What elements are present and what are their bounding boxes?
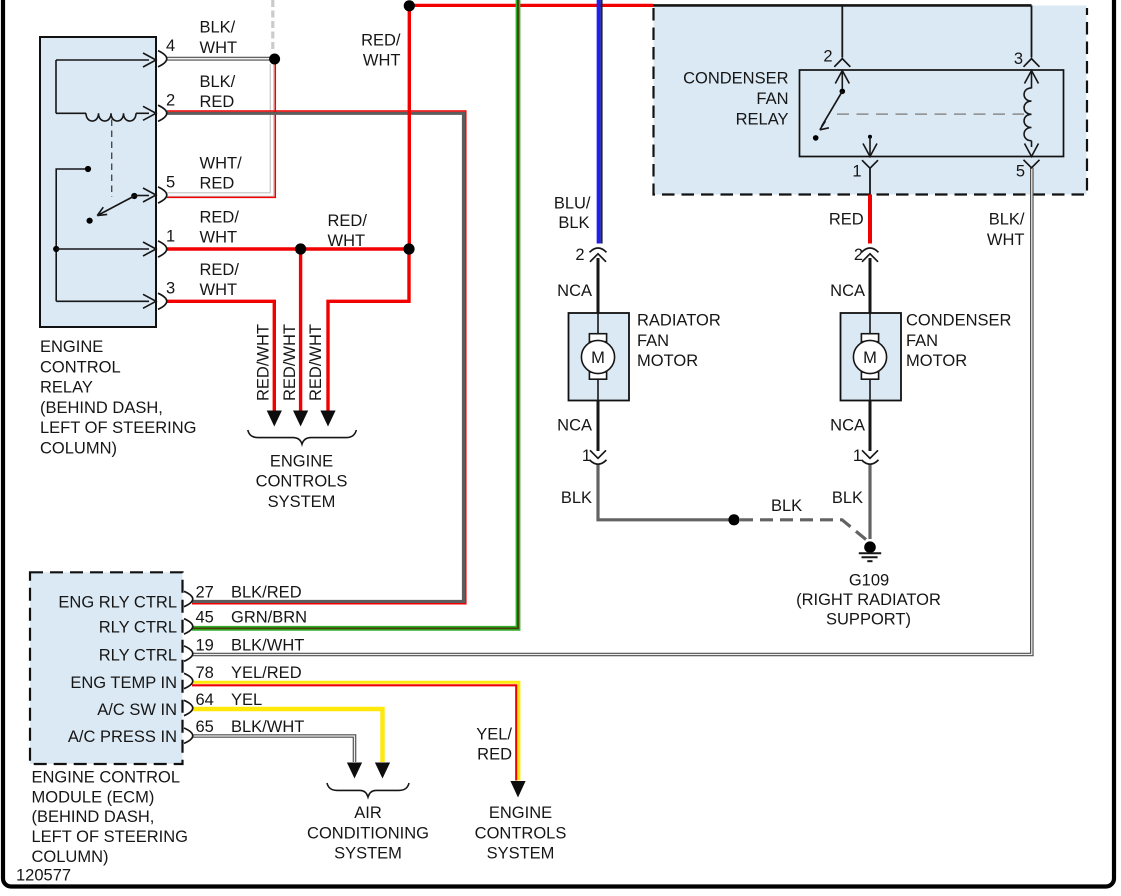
relay K1 internal: dashed actuator link <box>111 120 113 198</box>
svg-text:AIR: AIR <box>354 804 382 822</box>
wire BLK drop to condenser relay pin 2 <box>841 5 843 57</box>
svg-text:NCA: NCA <box>830 282 865 300</box>
svg-text:27: 27 <box>196 584 214 602</box>
svg-text:19: 19 <box>196 637 214 655</box>
svg-text:(RIGHT RADIATOR: (RIGHT RADIATOR <box>796 591 941 609</box>
svg-text:ENG RLY CTRL: ENG RLY CTRL <box>58 594 177 612</box>
arrow YEL to air conditioning system <box>375 763 390 779</box>
svg-text:1: 1 <box>852 163 861 181</box>
relay K1 internal: pin 4 line with arrow <box>56 59 149 61</box>
relay K1 internal: pin 5 contact and movable arm <box>131 193 137 199</box>
svg-text:3: 3 <box>1014 50 1023 68</box>
svg-text:NCA: NCA <box>830 417 865 435</box>
svg-text:1: 1 <box>582 447 591 465</box>
connector relay K1 pin 4 <box>158 51 167 67</box>
wire RED condenser relay pin 1 lead inside enclosure <box>869 168 871 195</box>
svg-text:FAN: FAN <box>756 90 788 108</box>
svg-text:MODULE (ECM): MODULE (ECM) <box>32 788 155 806</box>
node junction dot RED/WHT pin1 first x300.6 <box>295 243 306 254</box>
wire RED/WHT relay pin 1 horizontal through junction dots <box>167 247 409 250</box>
svg-text:CONDENSER: CONDENSER <box>683 70 789 88</box>
svg-text:RED: RED <box>200 93 235 111</box>
svg-text:BLK/WHT: BLK/WHT <box>231 718 304 736</box>
svg-text:CONTROLS: CONTROLS <box>256 473 348 491</box>
connector C2 radiator fan (top) <box>590 248 607 252</box>
connector C1 condenser fan (bottom) <box>862 450 878 458</box>
wire BLK/WHT condenser relay pin 5 down and across to ECM pin 19 <box>192 168 1032 655</box>
relay K1 internal: pin 1 line with arrow <box>56 248 149 250</box>
connector ECM pin 45 <box>184 619 193 634</box>
svg-text:RED/WHT: RED/WHT <box>307 324 325 401</box>
svg-text:RED: RED <box>829 211 864 229</box>
svg-text:A/C SW IN: A/C SW IN <box>97 701 177 719</box>
svg-text:RED/WHT: RED/WHT <box>255 324 273 401</box>
svg-text:5: 5 <box>166 173 175 191</box>
relay K2 CONDENSER FAN RELAY dashed enclosure <box>654 6 1087 195</box>
wire RED/WHT relay pin 3 to engine controls system arrow 1 <box>167 301 274 411</box>
svg-text:SUPPORT): SUPPORT) <box>826 611 911 629</box>
svg-text:RLY CTRL: RLY CTRL <box>99 647 177 665</box>
relay K1 ENGINE CONTROL RELAY box <box>40 37 156 327</box>
svg-text:M: M <box>863 349 877 367</box>
wire BLK/WHT ECM pin 65 to air conditioning system arrow <box>192 736 355 762</box>
svg-text:WHT: WHT <box>363 52 401 70</box>
wire BLK drop to condenser relay pin 3 <box>1031 5 1033 57</box>
svg-text:3: 3 <box>166 280 175 298</box>
relay K1 internal: top rail <box>55 60 57 113</box>
connector relay K1 pin 2 <box>158 105 167 121</box>
connector relay K2 pin 1 <box>862 160 878 168</box>
svg-text:RELAY: RELAY <box>736 110 789 128</box>
connector relay K1 pin 3 <box>158 293 167 309</box>
wire BLK radiator fan motor to splice dot <box>598 464 734 520</box>
svg-text:G109: G109 <box>849 572 889 590</box>
relay K2 internal: coil <box>1024 88 1031 141</box>
svg-text:WHT: WHT <box>987 231 1025 249</box>
svg-text:ENGINE: ENGINE <box>489 804 552 822</box>
svg-text:BLU/: BLU/ <box>554 194 591 212</box>
svg-text:BLK/: BLK/ <box>989 210 1025 228</box>
svg-text:LEFT OF STEERING: LEFT OF STEERING <box>32 828 188 846</box>
svg-text:RADIATOR: RADIATOR <box>637 312 721 330</box>
svg-text:MOTOR: MOTOR <box>637 352 698 370</box>
svg-text:NCA: NCA <box>557 282 592 300</box>
connector relay K1 pin 5 <box>158 187 167 203</box>
svg-text:64: 64 <box>196 691 214 709</box>
svg-text:LEFT OF STEERING: LEFT OF STEERING <box>40 419 196 437</box>
svg-text:ENG TEMP IN: ENG TEMP IN <box>70 674 177 692</box>
connector ECM pin 19 <box>184 646 193 661</box>
relay K2 CONDENSER FAN RELAY body <box>800 70 1064 157</box>
connector relay K1 pin 1 <box>158 241 167 257</box>
svg-text:RED/: RED/ <box>200 209 240 227</box>
node junction dot BLK/WHT pin4 end x273.6 <box>269 54 280 65</box>
svg-text:COLUMN): COLUMN) <box>32 848 109 866</box>
svg-text:WHT/: WHT/ <box>200 155 243 173</box>
connector C2 condenser fan (top) <box>862 248 879 252</box>
relay K2 internal: coil to pin 5 arrow <box>1031 141 1033 147</box>
svg-text:YEL/RED: YEL/RED <box>231 664 302 682</box>
node junction dot RED/WHT pin1 second x409 <box>403 243 414 254</box>
wire BLK/WHT relay pin 4 to junction <box>167 57 275 61</box>
wire GRN/BRN from top edge down to ECM pin 45 <box>192 0 518 628</box>
svg-text:BLK: BLK <box>832 489 863 507</box>
connector relay K2 pin 3 chevron <box>1024 59 1040 67</box>
svg-text:WHT: WHT <box>328 232 366 250</box>
wire WHT dashed off-page stub above junction at x=273.6 <box>271 0 274 51</box>
brace under engine controls system arrows <box>248 430 356 444</box>
relay K2 internal: switch arm and contacts <box>840 89 846 95</box>
svg-text:WHT: WHT <box>200 39 238 57</box>
relay K2 internal: pin 1 stub with arrow <box>868 135 872 139</box>
arrow RED/WHT to engine controls system 1 <box>267 411 282 427</box>
wire NCA radiator fan motor lower lead <box>597 401 600 452</box>
motor M1 RADIATOR FAN MOTOR box <box>569 313 630 401</box>
svg-text:BLK/WHT: BLK/WHT <box>231 637 304 655</box>
svg-text:BLK/RED: BLK/RED <box>231 584 302 602</box>
wire RED/WHT branch from first junction dot down to arrow 2 <box>299 249 302 412</box>
arrow RED/WHT to engine controls system 3 <box>320 411 335 427</box>
svg-text:RED/: RED/ <box>200 261 240 279</box>
svg-text:RLY CTRL: RLY CTRL <box>99 619 177 637</box>
svg-text:SYSTEM: SYSTEM <box>334 845 402 863</box>
svg-text:BLK/: BLK/ <box>200 73 236 91</box>
wire RED/WHT branch from second junction dot down and over to arrow 3 <box>328 249 409 412</box>
svg-text:COLUMN): COLUMN) <box>40 440 117 458</box>
connector ECM pin 27 <box>184 591 193 606</box>
svg-text:YEL: YEL <box>231 691 262 709</box>
svg-text:CONTROLS: CONTROLS <box>475 824 567 842</box>
svg-text:A/C PRESS IN: A/C PRESS IN <box>68 728 177 746</box>
svg-text:FAN: FAN <box>906 332 938 350</box>
wire BLK dashed splice to ground <box>740 520 866 540</box>
svg-text:BLK/: BLK/ <box>200 19 236 37</box>
relay K2 internal: pin 2 arrow into body <box>835 71 849 84</box>
svg-text:2: 2 <box>575 246 584 264</box>
svg-text:YEL/: YEL/ <box>476 726 512 744</box>
svg-text:5: 5 <box>1016 163 1025 181</box>
wire YEL/RED ECM pin 78 to engine controls system arrow <box>192 682 519 780</box>
wire BLK top feed inside condenser enclosure to pins 2 and 3 <box>653 4 1032 7</box>
svg-text:45: 45 <box>196 609 214 627</box>
svg-text:ENGINE: ENGINE <box>40 338 103 356</box>
svg-text:RED/: RED/ <box>328 212 368 230</box>
relay K2 internal: pin 2 connector chevron <box>834 59 850 67</box>
connector C1 radiator fan (bottom) <box>590 450 606 458</box>
svg-text:MOTOR: MOTOR <box>906 352 967 370</box>
arrow YEL/RED to engine controls system <box>510 781 525 798</box>
svg-text:120577: 120577 <box>16 867 71 885</box>
svg-text:RED: RED <box>200 175 235 193</box>
wire BLU/BLK from top edge down to radiator fan connector 2 <box>597 0 601 244</box>
motor M2 CONDENSER FAN MOTOR box <box>841 313 902 401</box>
svg-text:M: M <box>591 349 605 367</box>
svg-text:ENGINE: ENGINE <box>270 452 333 470</box>
motor M2 internal symbol <box>869 313 871 334</box>
arrow BLK/WHT to air conditioning system <box>347 763 362 779</box>
connector ECM pin 78 <box>184 673 193 688</box>
arrow RED/WHT to engine controls system 2 <box>293 411 308 427</box>
svg-text:78: 78 <box>196 664 214 682</box>
wire NCA condenser fan motor lower lead <box>869 401 872 452</box>
svg-text:2: 2 <box>166 92 175 110</box>
wire NCA condenser fan motor upper lead <box>869 258 872 313</box>
wire BLK/RED relay pin 2 down to ECM pin 27 <box>167 113 464 601</box>
svg-text:RED/: RED/ <box>361 31 401 49</box>
brace under air conditioning system arrows <box>327 783 409 797</box>
svg-text:NCA: NCA <box>557 417 592 435</box>
module U1 ENGINE CONTROL MODULE (ECM) dashed box <box>30 572 183 764</box>
svg-text:WHT: WHT <box>200 281 238 299</box>
svg-text:BLK: BLK <box>771 497 802 515</box>
node junction dot BLK splice x734 <box>728 514 739 525</box>
svg-text:BLK: BLK <box>558 214 589 232</box>
svg-text:RELAY: RELAY <box>40 379 93 397</box>
svg-text:BLK: BLK <box>561 489 592 507</box>
svg-text:SYSTEM: SYSTEM <box>487 845 555 863</box>
svg-text:(BEHIND DASH,: (BEHIND DASH, <box>32 808 155 826</box>
svg-text:ENGINE CONTROL: ENGINE CONTROL <box>32 769 181 787</box>
svg-text:(BEHIND DASH,: (BEHIND DASH, <box>40 399 163 417</box>
relay K1 internal: pin 3 line with arrow <box>56 300 149 302</box>
svg-text:2: 2 <box>823 48 832 66</box>
svg-text:CONDITIONING: CONDITIONING <box>307 824 429 842</box>
svg-text:RED/WHT: RED/WHT <box>281 324 299 401</box>
relay K1 internal: switch common rail and contacts <box>56 169 88 301</box>
svg-text:1: 1 <box>166 227 175 245</box>
wire YEL ECM pin 64 to air conditioning system arrow <box>192 709 383 762</box>
svg-text:RED: RED <box>477 746 512 764</box>
node junction dot top RED/WHT x409 <box>404 0 415 11</box>
connector ECM pin 64 <box>184 700 193 715</box>
svg-text:CONDENSER: CONDENSER <box>906 312 1012 330</box>
relay K2 internal: pin 3 arrow into coil <box>1025 71 1039 84</box>
wire WHT/RED relay pin 5 to junction column <box>167 64 272 195</box>
svg-text:4: 4 <box>166 37 175 55</box>
wire RED condenser relay pin 1 to condenser fan connector 2 <box>868 195 872 244</box>
wire RED/WHT vertical main column x=409 from top junction down to pin1 junction <box>408 5 411 249</box>
svg-text:CONTROL: CONTROL <box>40 358 121 376</box>
relay K2 internal: dashed actuator link <box>837 113 1024 115</box>
motor M1 internal symbol <box>597 313 599 334</box>
ground G109 symbol <box>864 541 876 553</box>
wire RED/WHT top feed from junction to condenser relay enclosure <box>409 4 653 7</box>
svg-text:WHT: WHT <box>200 229 238 247</box>
wire BLK condenser fan motor to ground G109 <box>868 464 871 539</box>
connector ECM pin 65 <box>184 728 193 743</box>
svg-text:FAN: FAN <box>637 332 669 350</box>
svg-text:65: 65 <box>196 718 214 736</box>
svg-text:2: 2 <box>854 246 863 264</box>
svg-text:1: 1 <box>853 447 862 465</box>
svg-text:SYSTEM: SYSTEM <box>268 493 336 511</box>
relay K1 internal: coil to pin 2 <box>56 112 86 114</box>
svg-text:GRN/BRN: GRN/BRN <box>231 609 307 627</box>
connector relay K2 pin 5 <box>1024 160 1040 168</box>
wire NCA radiator fan motor upper lead <box>597 258 600 313</box>
